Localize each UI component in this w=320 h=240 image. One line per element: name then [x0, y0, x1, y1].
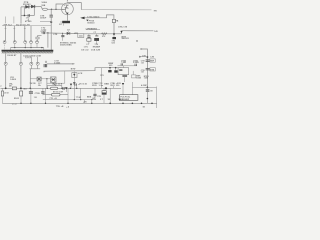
capacitor plates below box [122, 75, 127, 76]
svg-text:B733 33 B: B733 33 B [52, 84, 63, 86]
connector circles row2 [4, 62, 39, 65]
svg-text:77 B1: 77 B1 [76, 97, 81, 99]
fuse F701 [43, 8, 48, 10]
label CTN 100UF [40, 16, 47, 20]
svg-text:C73J: C73J [12, 104, 17, 106]
cap x42.9 [42, 88, 44, 91]
label top right col [150, 57, 155, 59]
label right of rail cap [150, 91, 153, 93]
corner into right rail [142, 49, 148, 87]
wire bus y25.7 left [2, 25, 51, 27]
labels 1730 / PTUE B10023 [87, 16, 100, 24]
X inside box T732 [51, 78, 55, 82]
label 1TB right of cap [97, 96, 101, 98]
down arrow x66.3 [65, 87, 68, 89]
wire collector top [67, 3, 81, 10]
label 14V [154, 30, 158, 33]
svg-text:TTB. >B: TTB. >B [56, 105, 64, 108]
verticals bus to lower wire [68, 83, 81, 104]
junction dot [24, 15, 25, 16]
label C73B [35, 93, 41, 95]
electrolytic x104 [103, 88, 105, 90]
wire y65.8 [118, 65, 138, 67]
labels under C705 [81, 44, 90, 51]
dot x137 y41 [136, 40, 137, 41]
wire vertical x24.3 [23, 7, 25, 16]
label left edge [0, 86, 2, 88]
svg-text:B10023: B10023 [88, 22, 95, 24]
diode D706 at x121.4 [120, 31, 122, 34]
label TTB below rail [56, 105, 64, 108]
dark box under x114.8 [115, 68, 117, 71]
capacitor C785 series x121.8 [121, 63, 122, 65]
svg-text:1BB: 1BB [41, 5, 46, 7]
transistor internals [62, 5, 68, 15]
wire y78.8 segments [30, 78, 50, 80]
wire into box [60, 22, 63, 26]
resistor oval lower [52, 93, 61, 96]
box below CTB5 [118, 68, 129, 75]
svg-text:0.0055: 0.0055 [54, 63, 60, 65]
junction dot x62.5 [62, 33, 63, 34]
svg-text:LCK: LCK [78, 73, 83, 75]
junction dots rail [20, 103, 153, 105]
vertical x110.2 below [109, 88, 111, 103]
capacitor C783 series x135.7 [135, 64, 136, 66]
capacitor C701 series [28, 14, 29, 17]
label LCK dark [78, 73, 83, 75]
label LT33 [4, 93, 8, 95]
down arrow x123 [122, 83, 124, 85]
svg-text:023: 023 [109, 65, 112, 67]
svg-text:5B0023: 5B0023 [122, 38, 130, 40]
svg-text:C7B: C7B [142, 55, 146, 57]
label right of diode [74, 33, 79, 35]
diode D703 [67, 32, 70, 35]
label below right col [144, 76, 149, 80]
label + A below rail [66, 106, 70, 109]
svg-text:1.BB: 1.BB [144, 78, 149, 80]
tiny boxes top-left of row2 [26, 56, 28, 58]
label BT33 [53, 92, 63, 94]
wire vertical x34.3 [33, 7, 35, 16]
small down arrow before PTUE [86, 20, 88, 22]
label 1W under T731 [30, 83, 37, 85]
svg-text:023: 023 [112, 42, 115, 44]
junction dot [147, 98, 149, 100]
wire fuse to transistor [48, 8, 64, 10]
wires into FC box [123, 82, 132, 95]
junction rail/wire [147, 87, 149, 89]
label right of resistor box [115, 21, 119, 23]
wire emitter down [66, 15, 68, 21]
vertical x113.5 [113, 86, 115, 89]
ground bar [2, 50, 54, 52]
wire x46.9 down [46, 79, 48, 89]
dark arrow below box3 [73, 82, 76, 85]
label PTB 350343 [23, 2, 31, 6]
svg-text:MU: MU [24, 89, 28, 91]
svg-text:77D. >B: 77D. >B [49, 97, 57, 100]
junction dot x47.9 [47, 32, 48, 33]
resistor R705 zigzag [102, 33, 108, 35]
bottom texts left [93, 98, 96, 100]
capacitor C702 electrolytic x51.2 [50, 9, 52, 15]
dark mark under box T732 [53, 84, 56, 86]
dark box under x110 [109, 68, 111, 70]
resistor R-emitter black box [62, 21, 70, 23]
arrow into right rail stub [139, 56, 141, 58]
svg-text:LT33: LT33 [4, 93, 8, 95]
label right end [72, 64, 75, 66]
wire y47.6 collect [11, 47, 44, 49]
svg-text:4 OBF: 4 OBF [141, 84, 148, 87]
diode inside [73, 71, 75, 77]
connector verticals above row1 [6, 26, 32, 41]
svg-text:BBB: BBB [87, 97, 92, 99]
svg-text:100UF: 100UF [40, 18, 47, 20]
lead into box [122, 66, 124, 68]
label Q701 [64, 1, 69, 10]
FC9 label [120, 97, 131, 101]
bus y33.8 [84, 33, 122, 35]
svg-text:HV: HV [154, 10, 158, 12]
junction dot right rail [147, 56, 149, 58]
label 77 B1 [76, 97, 81, 99]
label CTB5 1.BB [121, 60, 126, 64]
drops to bottom rail [84, 100, 92, 104]
box T732 [51, 77, 57, 83]
labels below [12, 98, 19, 105]
svg-text:350343: 350343 [23, 3, 31, 6]
label in box2 [150, 69, 154, 71]
vertical x45.5 [45, 88, 47, 103]
wire y15.5 [21, 15, 34, 17]
component dark x114 [113, 34, 115, 37]
capacitor right rail 1 [146, 60, 150, 61]
arrows in row2 circles [5, 63, 38, 64]
wire y35.7 from box [38, 36, 42, 37]
capacitor cluster x44-47 [44, 64, 47, 67]
wire 14V line [121, 30, 153, 32]
svg-text:CAL: CAL [65, 6, 70, 9]
cap x76.5 above bus [73, 84, 79, 86]
junction small circle [45, 61, 47, 63]
svg-text:BBBHBF: BBBHBF [120, 99, 129, 101]
connector circles row2 verticals [6, 53, 21, 88]
wire jog to fuse [40, 7, 43, 10]
svg-text:BBB: BBB [104, 84, 109, 86]
emitter arrow [66, 13, 69, 15]
faint label above [118, 26, 128, 28]
svg-text:BTB: BTB [150, 69, 154, 71]
label right of small box [136, 76, 141, 80]
arrows in row1 circles [4, 41, 38, 42]
svg-text:C7BL C7B: C7BL C7B [118, 26, 128, 28]
tick above diode [68, 30, 69, 33]
transistor Q701 [62, 3, 74, 15]
junction x46.9 [46, 78, 47, 79]
resistor loop [47, 86, 62, 89]
wire y83.2 [47, 82, 65, 84]
small box right [132, 75, 136, 78]
svg-text:HK/BBF: HK/BBF [93, 47, 101, 49]
wire top jog x86 [86, 28, 100, 30]
capacitor right rail 2 [146, 69, 150, 70]
resistor oval R733 [50, 87, 57, 89]
svg-text:1.2M: 1.2M [150, 57, 155, 59]
svg-text:EN33: EN33 [14, 98, 19, 100]
label BBB left of cap [87, 97, 92, 99]
box right 2 [150, 68, 155, 71]
junction dot x51.5 [51, 9, 52, 10]
dark arrow x119.6 [119, 99, 121, 101]
svg-text:B.BB: B.BB [136, 77, 141, 79]
main bus y88.3 [1, 87, 122, 89]
svg-text:270: 270 [102, 36, 105, 38]
capacitor on right rail lower [146, 90, 150, 91]
lower wire y95.15 [43, 94, 68, 96]
label MU dark left [24, 89, 28, 91]
stub y56.7 [140, 56, 148, 58]
capacitor x95 below bus [94, 88, 96, 99]
arrow left (signal in) [80, 17, 84, 20]
wire x101.3 down [100, 68, 102, 89]
drops circles to wire [15, 44, 44, 48]
label row under bar [7, 55, 41, 57]
wire top rail left (diode section) [21, 6, 41, 8]
label in box1 [150, 61, 155, 63]
junction dots on y47.6 [14, 47, 42, 48]
junction dots bus [5, 87, 107, 89]
wire y71.2 long [44, 68, 122, 73]
svg-text:350Y: 350Y [110, 85, 115, 87]
svg-text:5-B00: 5-B00 [10, 79, 17, 81]
cap x30.9 [30, 88, 32, 91]
wire snubber y32.9 [41, 32, 67, 34]
wire x30.3 down [29, 69, 31, 89]
diode box x74.3 [72, 73, 77, 78]
label 253 5-800 [10, 77, 17, 81]
connector circles row1 [3, 41, 38, 44]
right rail lower [146, 87, 148, 103]
diode D702 [31, 5, 34, 8]
label small below caps [34, 97, 38, 99]
resistor R vertical x2.5 [2, 88, 4, 91]
svg-text:BYW: BYW [71, 69, 76, 71]
svg-text:CCB 2.2M: CCB 2.2M [91, 50, 101, 52]
bottom texts right [100, 99, 111, 101]
label CY [94, 32, 97, 34]
labels left of rail [141, 61, 145, 74]
label CTB3 2.2HB [133, 60, 139, 64]
svg-text:1TB: 1TB [115, 21, 119, 23]
svg-text:1T3 0.01: 1T3 0.01 [79, 84, 88, 86]
wire y21.3 stub [40, 20, 51, 22]
lower wire y99.6 [43, 99, 96, 101]
junction dots y67.7 [109, 67, 116, 69]
dashed drop left circle [4, 44, 6, 51]
svg-text:1.3w: 1.3w [99, 85, 104, 87]
label MTB 5B0023 dark [122, 36, 130, 40]
lead below box3 [73, 78, 75, 83]
down arrow x71 above bus [70, 84, 72, 86]
bottom rail y103.3 [2, 102, 157, 104]
capacitor small x51 series marks [50, 21, 52, 24]
ground hatch [2, 52, 53, 54]
labels above bus [9, 83, 109, 88]
label BMW 023 [108, 63, 113, 67]
polarity mark [62, 91, 64, 93]
X inside box T731 [38, 78, 41, 81]
wire x114 up + resistor box [113, 23, 115, 34]
wire vertical x21 [20, 7, 22, 24]
wire diode to box [70, 33, 78, 35]
label ms [71, 69, 76, 71]
wire x47.9 down [47, 33, 49, 48]
svg-text:47.080: 47.080 [25, 20, 32, 23]
capacitor sub x62.5 [62, 33, 64, 35]
diode D701 [26, 5, 29, 8]
svg-text:350V: 350V [92, 85, 97, 87]
junction blob x114 [113, 33, 115, 35]
wire base divider up [56, 4, 63, 9]
svg-text:1W 1B: 1W 1B [30, 83, 37, 85]
capacitor C733 series bars [43, 32, 44, 34]
wire y87.3 right [132, 86, 156, 88]
wire stubs above label row [6, 17, 14, 24]
wire cap down to ground bar [50, 17, 52, 50]
lead x133.2 down [132, 71, 134, 75]
capacitor C705 x88.9 [88, 34, 90, 36]
labels under C706 [91, 44, 101, 51]
label +1N [83, 102, 87, 104]
svg-text:1.B 1.32: 1.B 1.32 [81, 50, 89, 52]
svg-text:160A: 160A [41, 1, 47, 4]
svg-text:C0000 BT: C0000 BT [7, 55, 17, 57]
label LTN [53, 34, 57, 36]
cap vertical x21 [20, 89, 22, 91]
series box on bus x14.4 [12, 87, 16, 90]
label 160A fuse [41, 1, 47, 7]
label near stub [142, 55, 146, 57]
cap bars on bus x63.5 [63, 87, 64, 90]
wire x64.8 drop [64, 71, 66, 83]
svg-text:1T8: 1T8 [100, 75, 103, 77]
small box x37.5 [36, 37, 39, 39]
svg-text:350/63 BBC: 350/63 BBC [60, 45, 72, 47]
box right 1 [150, 59, 155, 62]
svg-text:14V: 14V [154, 30, 158, 33]
label bottom right small [143, 107, 146, 109]
capacitor C706 x96.5 [96, 34, 98, 36]
label COMPAS [59, 24, 62, 26]
bars inside box [119, 69, 122, 70]
junction dots lower wire [74, 99, 93, 100]
label 270 [102, 36, 105, 38]
small box T731 lower [37, 77, 41, 81]
wire C737 y63.9 [47, 63, 74, 65]
junction dot x56 [55, 9, 56, 10]
label HV [154, 10, 158, 12]
label bottom row connector names [3, 25, 30, 27]
label C701 value [25, 18, 32, 24]
label BYW95C 350/63 [60, 43, 77, 47]
label 77D >B [49, 97, 57, 100]
label C737 0.0055 [54, 61, 60, 65]
FC9 box [120, 95, 138, 101]
svg-text:350: 350 [116, 85, 119, 87]
right border vertical [156, 87, 158, 109]
component box on bus [78, 34, 84, 38]
label JP row [87, 29, 98, 31]
tick marks y28.5 [5, 28, 26, 30]
svg-text:1730 230231: 1730 230231 [87, 16, 100, 18]
wire y68.8 [30, 68, 41, 70]
label 0.022 [41, 27, 48, 33]
label 1T8 [100, 75, 103, 77]
label above diode [67, 29, 70, 32]
svg-text:C73B: C73B [35, 93, 41, 95]
wire HV line [81, 9, 151, 11]
svg-text:LTN: LTN [53, 34, 57, 36]
svg-text:1.TU: 1.TU [84, 47, 89, 49]
